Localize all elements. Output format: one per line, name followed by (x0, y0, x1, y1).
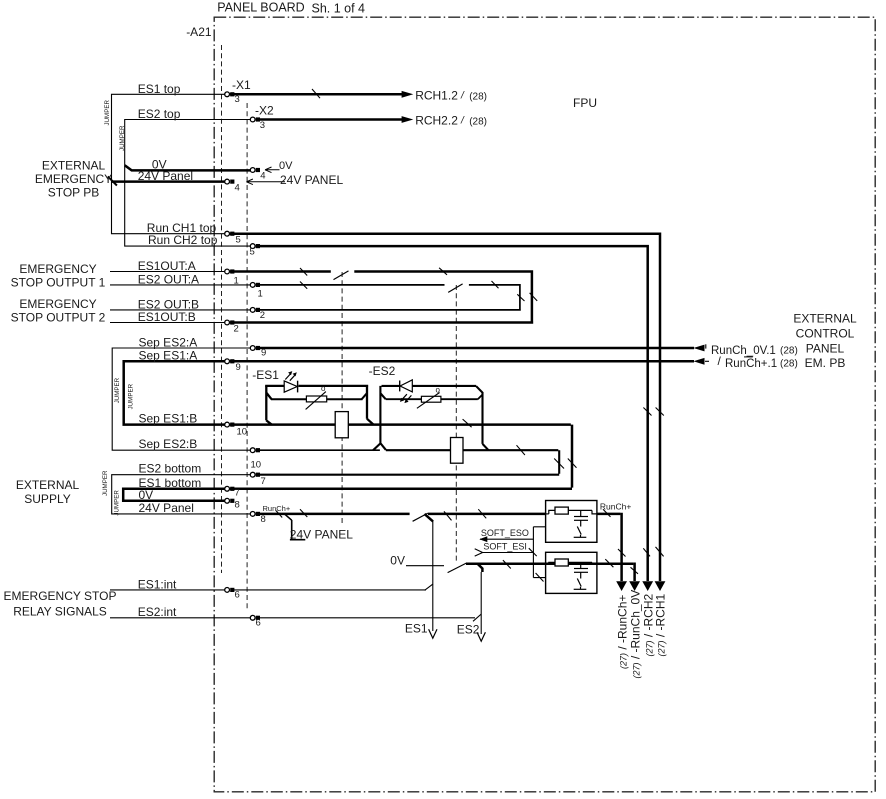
svg-text:(27) / -RCH1: (27) / -RCH1 (654, 593, 668, 656)
svg-text:-X2: -X2 (255, 104, 274, 118)
svg-text:PANEL BOARD: PANEL BOARD (217, 1, 305, 15)
svg-text:ES1: ES1 (405, 621, 428, 635)
svg-text:5: 5 (250, 247, 255, 258)
svg-text:SOFT_ESO: SOFT_ESO (481, 528, 529, 538)
svg-text:4: 4 (260, 171, 265, 182)
svg-text:24V PANEL: 24V PANEL (280, 173, 343, 187)
svg-text:Sep ES2:B: Sep ES2:B (139, 437, 198, 451)
svg-text:EMERGENCY: EMERGENCY (19, 262, 96, 276)
svg-text:10: 10 (237, 426, 248, 437)
svg-text:9: 9 (236, 362, 241, 373)
svg-text:ES1 top: ES1 top (138, 82, 181, 96)
svg-text:3: 3 (235, 94, 240, 105)
svg-text:ES2 top: ES2 top (138, 107, 181, 121)
svg-text:-A21: -A21 (186, 25, 212, 39)
svg-text:0V: 0V (279, 160, 293, 172)
svg-text:RunCh+: RunCh+ (263, 504, 291, 513)
svg-text:24V Panel: 24V Panel (139, 501, 194, 515)
svg-text:2: 2 (260, 310, 265, 321)
svg-text:RunCh+.1: RunCh+.1 (725, 358, 777, 370)
svg-text:1: 1 (258, 289, 263, 300)
svg-text:JUMPER: JUMPER (104, 100, 111, 126)
svg-text:-X1: -X1 (232, 78, 251, 92)
svg-text:RCH1.2: RCH1.2 (415, 88, 458, 102)
svg-text:7: 7 (235, 488, 240, 499)
svg-text:ES1:int: ES1:int (138, 577, 177, 591)
svg-text:ES2:int: ES2:int (138, 605, 177, 619)
svg-text:SOFT_ESI: SOFT_ESI (483, 541, 527, 551)
svg-text:(28): (28) (469, 117, 487, 128)
svg-text:EXTERNAL: EXTERNAL (16, 478, 80, 492)
svg-text:(27) / -RunCh_0V: (27) / -RunCh_0V (628, 590, 642, 679)
svg-text:24V Panel: 24V Panel (138, 169, 193, 183)
svg-text:5: 5 (236, 234, 241, 245)
svg-text:SUPPLY: SUPPLY (24, 492, 70, 506)
svg-text:-ES2: -ES2 (369, 364, 396, 378)
svg-text:RCH2.2: RCH2.2 (415, 114, 458, 128)
svg-text:1: 1 (234, 276, 239, 287)
svg-text:EXTERNAL: EXTERNAL (42, 159, 106, 173)
svg-text:7: 7 (261, 476, 266, 487)
svg-text:STOP PB: STOP PB (48, 186, 100, 200)
svg-text:0V: 0V (139, 488, 154, 502)
svg-text:STOP OUTPUT 2: STOP OUTPUT 2 (11, 310, 106, 324)
svg-text:9: 9 (261, 348, 266, 359)
svg-text:-ES1: -ES1 (252, 368, 279, 382)
svg-text:6: 6 (256, 618, 261, 629)
svg-text:ES1OUT:B: ES1OUT:B (138, 310, 196, 324)
svg-text:3: 3 (260, 120, 265, 131)
svg-text:ES2: ES2 (457, 622, 480, 636)
svg-text:RunCh+: RunCh+ (600, 501, 631, 511)
svg-text:EMERGENCY: EMERGENCY (35, 172, 112, 186)
svg-text:EMERGENCY: EMERGENCY (19, 297, 96, 311)
svg-text:JUMPER: JUMPER (119, 125, 126, 151)
svg-text:(28): (28) (469, 91, 487, 102)
svg-text:JUMPER: JUMPER (102, 470, 109, 496)
svg-text:(28): (28) (780, 345, 798, 356)
svg-text:JUMPER: JUMPER (114, 377, 121, 403)
svg-text:Sep ES2:A: Sep ES2:A (139, 335, 198, 349)
svg-text:EM. PB: EM. PB (805, 356, 846, 370)
svg-text:10: 10 (251, 460, 262, 471)
svg-text:o: o (436, 386, 441, 395)
svg-text:8: 8 (261, 514, 266, 525)
svg-text:o: o (321, 384, 326, 393)
svg-text:Sep ES1:A: Sep ES1:A (139, 348, 198, 362)
svg-text:(27) / -RunCh+: (27) / -RunCh+ (615, 595, 629, 669)
svg-text:EMERGENCY STOP: EMERGENCY STOP (4, 589, 117, 603)
svg-text:RELAY SIGNALS: RELAY SIGNALS (13, 605, 107, 619)
svg-text:ES1OUT:A: ES1OUT:A (138, 259, 196, 273)
svg-text:JUMPER: JUMPER (128, 383, 135, 409)
svg-text:FPU: FPU (573, 96, 597, 110)
svg-text:(28): (28) (780, 358, 798, 369)
svg-text:4: 4 (235, 183, 240, 194)
svg-text:8: 8 (235, 499, 240, 510)
svg-text:Run CH2 top: Run CH2 top (148, 233, 218, 247)
svg-text:STOP OUTPUT 1: STOP OUTPUT 1 (11, 275, 106, 289)
svg-text:PANEL: PANEL (806, 342, 845, 356)
svg-text:0V: 0V (390, 554, 405, 568)
svg-text:JUMPER: JUMPER (114, 490, 121, 516)
svg-text:EXTERNAL: EXTERNAL (793, 312, 857, 326)
svg-text:ES2 OUT:A: ES2 OUT:A (138, 272, 199, 286)
svg-text:6: 6 (235, 590, 240, 601)
svg-text:24V PANEL: 24V PANEL (290, 528, 353, 542)
svg-text:CONTROL: CONTROL (796, 327, 855, 341)
svg-text:2: 2 (234, 324, 239, 335)
svg-text:Sh. 1 of 4: Sh. 1 of 4 (312, 2, 366, 16)
svg-text:ES2 bottom: ES2 bottom (139, 462, 202, 476)
svg-text:Sep ES1:B: Sep ES1:B (139, 412, 198, 426)
